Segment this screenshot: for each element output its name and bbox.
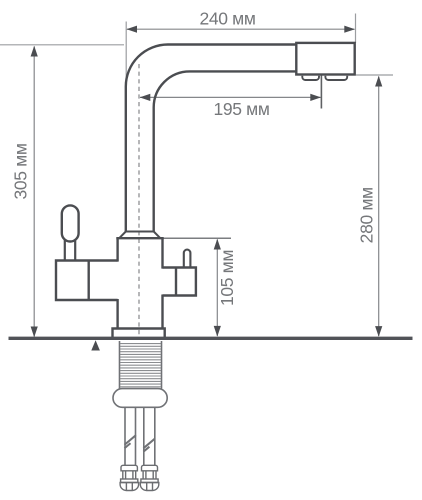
dimension 280 mm line (378, 77, 380, 337)
arrow 105 bottom (214, 326, 221, 337)
extension line below spout head (195 mm right reference) (320, 76, 322, 109)
svg-text:240 мм: 240 мм (199, 8, 255, 28)
right connector collar (142, 465, 158, 471)
left block divider (87, 261, 89, 301)
countertop line (9, 337, 413, 340)
dimension 105 mm line (216, 240, 218, 336)
spout inner contour (154, 71, 297, 231)
arrow 280 top (375, 76, 382, 87)
riser flare (119, 232, 160, 239)
arrow 195 left (140, 94, 151, 101)
left hose slash (125, 435, 136, 448)
spout head (296, 43, 354, 75)
right connector washer (141, 479, 158, 483)
svg-text:305 мм: 305 мм (10, 143, 30, 199)
left lever stem (65, 240, 75, 261)
extension line top-left (305 mm top reference) (0, 44, 124, 46)
dimension 305 mm line (33, 47, 35, 337)
base plate (113, 329, 165, 340)
thread lines (120, 344, 161, 387)
extension line left vertical for 240 mm (125, 22, 127, 86)
body left edge upper (116, 238, 118, 261)
arrow 240 right (344, 26, 355, 33)
right valve block (163, 268, 196, 296)
extension line right vertical for 240 mm (355, 14, 357, 44)
extension line for 105 mm (body top extended) (163, 237, 231, 239)
svg-text:105 мм: 105 мм (217, 250, 237, 306)
svg-text:195 мм: 195 мм (213, 99, 269, 119)
arrow 280 bottom (375, 326, 382, 337)
arrow 105 top (214, 239, 221, 250)
right small lever (184, 250, 191, 268)
svg-text:280 мм: 280 мм (356, 187, 376, 243)
left cap facets (126, 483, 132, 490)
left connector cap (120, 483, 139, 491)
left lever pill handle (62, 205, 79, 241)
left connector washer (121, 479, 138, 483)
left hose (125, 407, 136, 465)
dimension 240 mm line (127, 28, 355, 30)
mount surface triangle (91, 340, 100, 350)
right block divider (175, 268, 177, 296)
body right edge upper (161, 238, 163, 268)
locking nut (stadium) (113, 389, 167, 408)
arrow 195 right (310, 94, 321, 101)
body right edge lower (161, 295, 163, 330)
body top edge (116, 237, 163, 239)
aerator outlet 1 (302, 76, 319, 80)
arrow 240 left (126, 26, 137, 33)
right connector cap (140, 483, 159, 491)
left connector neck (123, 471, 136, 479)
dimension 195 mm line (140, 96, 321, 98)
left connector collar (121, 465, 137, 471)
right hose slash (143, 439, 154, 452)
extension line right (280 mm top reference) (356, 74, 393, 76)
left valve block (56, 261, 118, 301)
centre dashed line of riser (138, 64, 140, 338)
arrow 305 bottom (31, 327, 38, 338)
right connector neck (143, 471, 156, 479)
aerator outlet 2 (325, 76, 347, 80)
right hose (144, 407, 155, 465)
threaded shank edges (120, 341, 162, 389)
spout outer contour (126, 45, 296, 232)
body left edge lower (116, 299, 118, 329)
arrow 305 top (31, 46, 38, 57)
right cap facets (147, 483, 153, 490)
